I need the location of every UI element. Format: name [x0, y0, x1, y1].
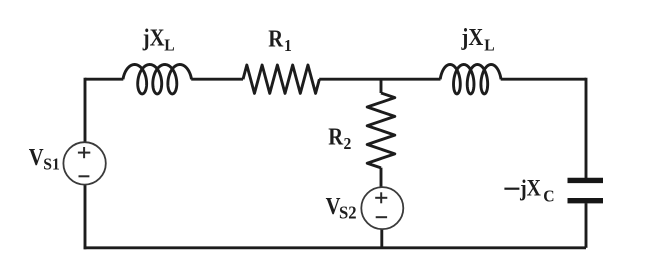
svg-text:R: R: [328, 123, 343, 150]
svg-text:jX: jX: [519, 175, 541, 201]
svg-text:C: C: [543, 188, 554, 205]
svg-text:S2: S2: [339, 203, 357, 222]
svg-text:L: L: [164, 37, 175, 54]
svg-text:jX: jX: [142, 24, 165, 51]
svg-text:L: L: [484, 37, 495, 54]
svg-text:1: 1: [284, 37, 292, 54]
svg-text:2: 2: [344, 136, 352, 153]
svg-text:jX: jX: [461, 24, 484, 51]
svg-text:R: R: [268, 25, 283, 52]
svg-text:V: V: [29, 144, 44, 171]
svg-text:S1: S1: [43, 156, 60, 173]
